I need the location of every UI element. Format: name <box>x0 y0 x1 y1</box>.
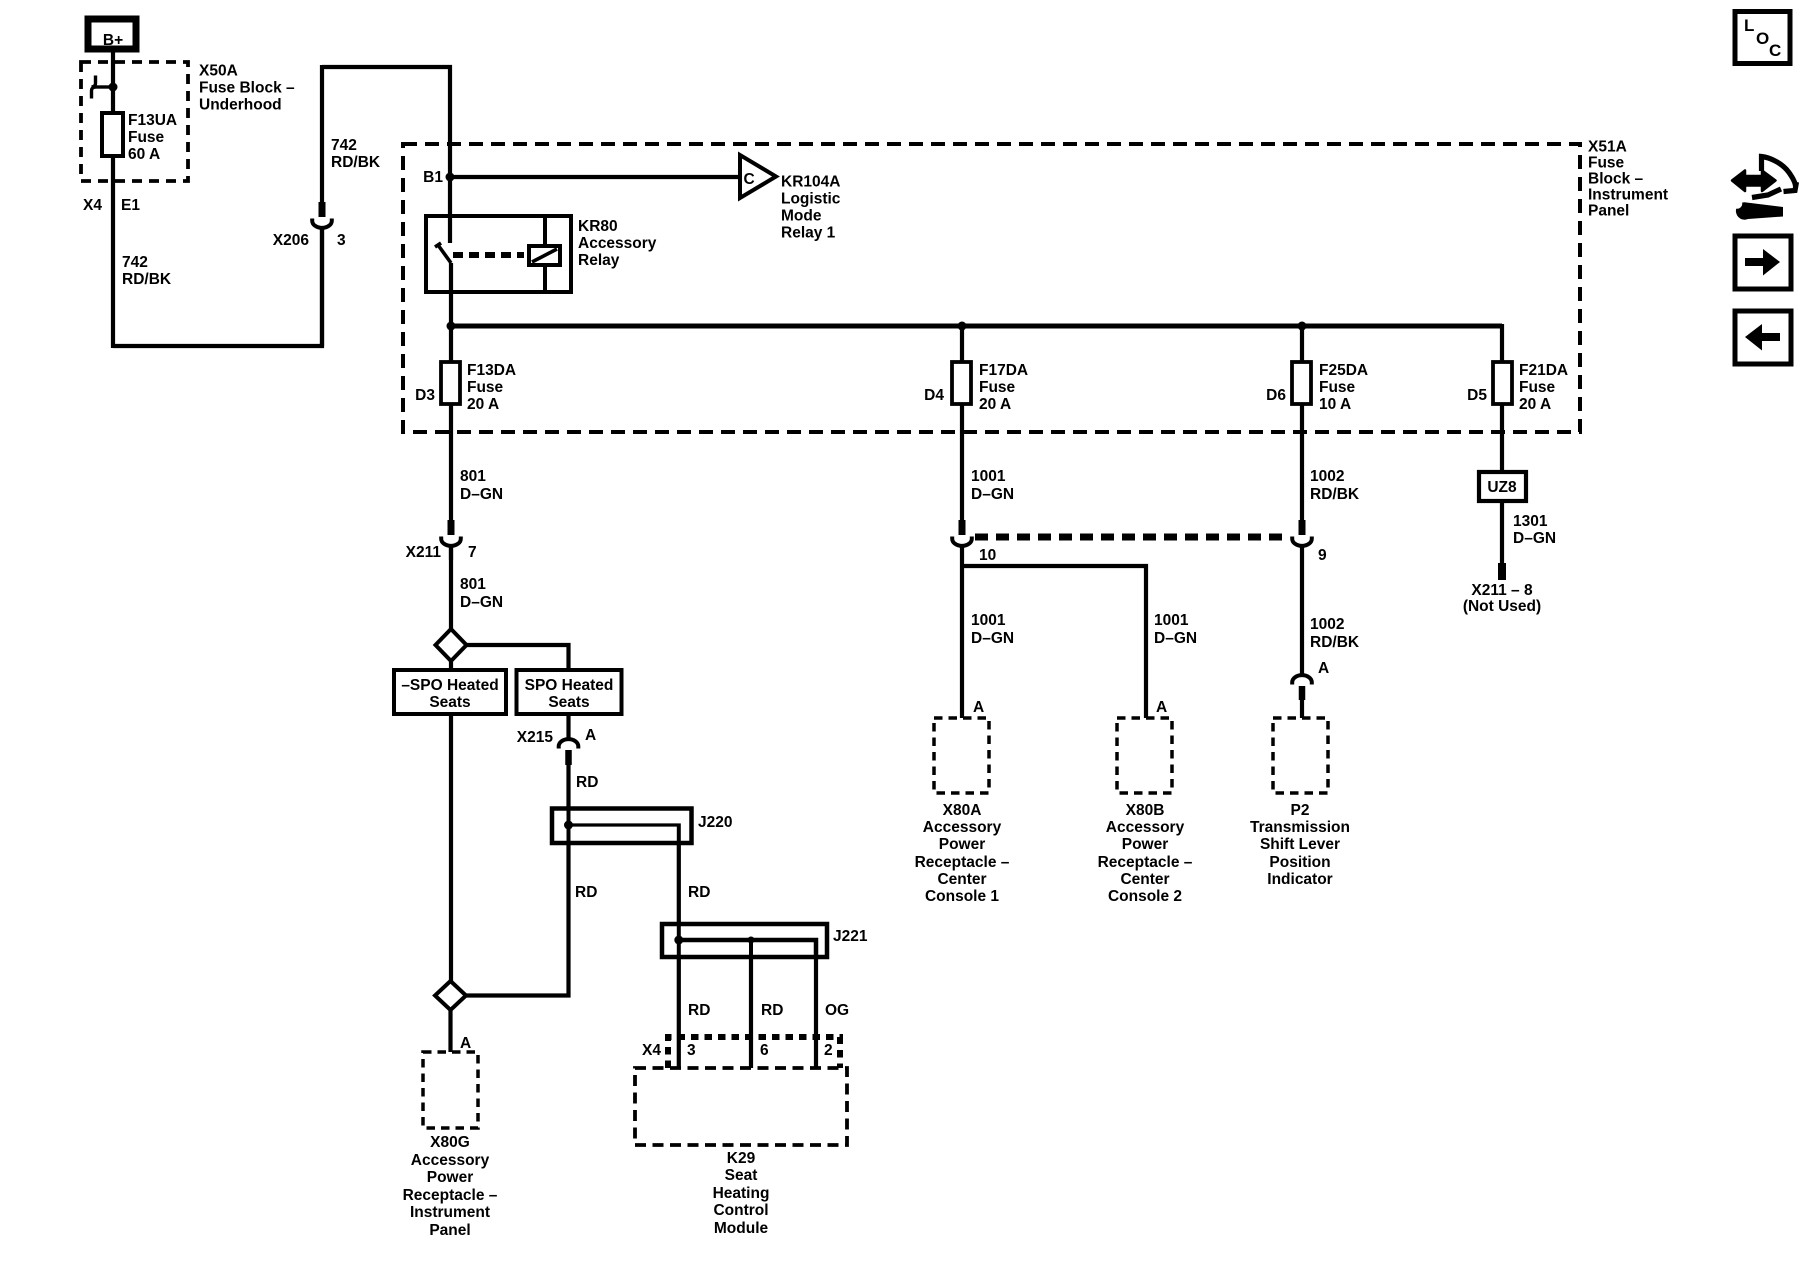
svg-text:1001: 1001 <box>971 468 1006 485</box>
svg-text:J221: J221 <box>833 928 868 945</box>
svg-text:K29: K29 <box>727 1150 756 1167</box>
svg-text:OG: OG <box>825 1002 849 1019</box>
svg-text:F13UA: F13UA <box>128 112 177 129</box>
svg-text:A: A <box>1156 699 1167 716</box>
svg-text:3: 3 <box>687 1042 696 1059</box>
svg-text:Underhood: Underhood <box>199 97 282 114</box>
wire label 1001 D-GN (D4 upper) <box>971 468 1014 503</box>
connector X4 / pin E1 labels <box>83 197 140 214</box>
option box -SPO Heated Seats <box>394 670 506 714</box>
svg-text:Shift Lever: Shift Lever <box>1260 836 1340 853</box>
svg-text:9: 9 <box>1318 547 1327 564</box>
wire J221 pin6 leg <box>749 957 753 1068</box>
svg-text:RD: RD <box>688 1002 710 1019</box>
wire label 801 D-GN (lower) <box>460 576 503 611</box>
splice pack J220 <box>552 809 732 844</box>
svg-text:D–GN: D–GN <box>1513 530 1556 547</box>
relay KR80 <box>426 216 571 292</box>
svg-text:X215: X215 <box>517 729 554 746</box>
svg-text:Transmission: Transmission <box>1250 819 1350 836</box>
wire label 1301 D-GN <box>1513 513 1556 547</box>
svg-text:KR80: KR80 <box>578 218 618 235</box>
wire D4 drop <box>960 326 964 520</box>
svg-text:1001: 1001 <box>971 612 1006 629</box>
wire pin10 to T split <box>960 544 964 718</box>
component K29 dashed box <box>635 1068 847 1145</box>
svg-text:RD: RD <box>761 1002 783 1019</box>
svg-text:RD: RD <box>688 884 710 901</box>
svg-text:A: A <box>460 1035 471 1052</box>
svg-text:1002: 1002 <box>1310 616 1344 633</box>
svg-text:X80B: X80B <box>1126 802 1165 819</box>
bus wire across fuse block <box>451 324 1502 329</box>
svg-text:SPO Heated: SPO Heated <box>525 677 614 694</box>
svg-text:7: 7 <box>468 544 477 561</box>
wire J220 left leg down <box>467 843 569 996</box>
nav icon back arrow box <box>1735 311 1791 364</box>
svg-text:B1: B1 <box>423 169 443 186</box>
fuse UZ8 box <box>1479 472 1526 501</box>
nav icon LOC box <box>1735 12 1790 64</box>
svg-text:RD/BK: RD/BK <box>1310 486 1360 503</box>
svg-text:F17DA: F17DA <box>979 362 1028 379</box>
fuse F13DA 20A D3 <box>415 362 516 413</box>
svg-text:6: 6 <box>760 1042 769 1059</box>
svg-text:B+: B+ <box>103 32 123 49</box>
fuse block X51A dashed box <box>403 144 1580 432</box>
svg-text:742: 742 <box>122 254 148 271</box>
svg-text:Fuse: Fuse <box>1519 379 1556 396</box>
svg-text:C: C <box>744 171 755 188</box>
component X80B dashed box <box>1117 718 1172 793</box>
X80A label <box>915 802 1010 905</box>
svg-text:D–GN: D–GN <box>1154 630 1197 647</box>
KR104A label <box>781 174 841 242</box>
P2 label <box>1250 802 1350 888</box>
svg-text:Console 2: Console 2 <box>1108 888 1182 905</box>
splice diamond to X80G <box>435 981 466 1010</box>
svg-text:X4: X4 <box>642 1042 661 1059</box>
wire bottom run to X206 <box>113 229 322 346</box>
svg-text:20 A: 20 A <box>467 396 499 413</box>
svg-text:2: 2 <box>824 1042 833 1059</box>
svg-text:D6: D6 <box>1266 387 1286 404</box>
svg-text:20 A: 20 A <box>1519 396 1551 413</box>
svg-text:1002: 1002 <box>1310 468 1344 485</box>
wire label 1002 RD/BK (upper) <box>1310 468 1360 503</box>
fuse F25DA 10A D6 <box>1266 362 1368 413</box>
in-line connector X211 pin 7 <box>406 520 477 561</box>
svg-text:Receptacle –: Receptacle – <box>403 1187 498 1204</box>
svg-text:Receptacle –: Receptacle – <box>915 854 1010 871</box>
svg-text:D3: D3 <box>415 387 435 404</box>
svg-text:Control: Control <box>713 1202 768 1219</box>
svg-text:Fuse: Fuse <box>467 379 504 396</box>
svg-text:Seats: Seats <box>548 694 589 711</box>
svg-text:Receptacle –: Receptacle – <box>1098 854 1193 871</box>
wire diamond to SPO box <box>467 645 569 670</box>
svg-text:Accessory: Accessory <box>411 1152 490 1169</box>
svg-text:60 A: 60 A <box>128 146 160 163</box>
X80B label <box>1098 802 1193 905</box>
svg-text:E1: E1 <box>121 197 140 214</box>
svg-text:20 A: 20 A <box>979 396 1011 413</box>
in-line connector pin 9 <box>1292 520 1327 564</box>
svg-text:D–GN: D–GN <box>971 630 1014 647</box>
svg-text:J220: J220 <box>698 814 732 831</box>
svg-text:(Not Used): (Not Used) <box>1463 598 1541 615</box>
wire B1 down into relay <box>448 177 452 243</box>
svg-text:Center: Center <box>1120 871 1169 888</box>
svg-text:F13DA: F13DA <box>467 362 516 379</box>
fuse F17DA 20A D4 <box>924 362 1028 413</box>
svg-text:KR104A: KR104A <box>781 174 840 191</box>
svg-text:Power: Power <box>939 836 986 853</box>
svg-text:O: O <box>1756 29 1769 48</box>
svg-text:Module: Module <box>714 1220 769 1237</box>
battery stud clip symbol <box>92 76 111 99</box>
wire J221 pin3 leg <box>677 957 681 1068</box>
svg-text:X50A: X50A <box>199 63 238 80</box>
wire label 1001 D-GN (X80B) <box>1154 612 1197 647</box>
svg-text:L: L <box>1744 16 1754 35</box>
wire diamond to -SPO box <box>449 661 453 670</box>
component X80A dashed box <box>934 718 989 793</box>
svg-text:Position: Position <box>1269 854 1330 871</box>
svg-text:F21DA: F21DA <box>1519 362 1568 379</box>
svg-text:D4: D4 <box>924 387 944 404</box>
wire B+ down to fuse block <box>111 52 115 87</box>
svg-text:A: A <box>1318 660 1329 677</box>
wire label 742 RD/BK (upper) <box>331 137 381 171</box>
svg-text:Center: Center <box>937 871 986 888</box>
svg-text:D5: D5 <box>1467 387 1487 404</box>
svg-text:RD: RD <box>576 774 598 791</box>
svg-text:Fuse: Fuse <box>128 129 165 146</box>
svg-text:X80A: X80A <box>943 802 982 819</box>
svg-text:X211: X211 <box>406 544 442 561</box>
option box SPO Heated Seats <box>517 670 622 714</box>
svg-text:10: 10 <box>979 547 996 564</box>
svg-text:Panel: Panel <box>1588 203 1629 220</box>
svg-text:801: 801 <box>460 576 486 593</box>
junction dot D3 branch <box>447 322 456 331</box>
relay trigger KR104A symbol C <box>740 155 776 198</box>
wire D3 drop <box>449 326 453 520</box>
svg-text:Fuse: Fuse <box>1588 155 1625 172</box>
wire D5 drop <box>1500 324 1504 472</box>
terminal X211-8 <box>1498 563 1506 580</box>
svg-text:Accessory: Accessory <box>923 819 1002 836</box>
svg-text:Fuse: Fuse <box>979 379 1016 396</box>
svg-text:Seats: Seats <box>429 694 470 711</box>
svg-text:C: C <box>1769 41 1781 60</box>
svg-text:Fuse: Fuse <box>1319 379 1356 396</box>
svg-text:Accessory: Accessory <box>1106 819 1185 836</box>
nav icon next arrow box <box>1735 236 1791 289</box>
wire top run to X51A B1 <box>322 67 450 177</box>
component X80G dashed box <box>423 1052 478 1128</box>
component P2 dashed box <box>1273 718 1328 793</box>
svg-text:RD/BK: RD/BK <box>331 154 381 171</box>
svg-text:Console 1: Console 1 <box>925 888 999 905</box>
svg-text:801: 801 <box>460 468 486 485</box>
wire diamond2 to X80G <box>448 1010 452 1052</box>
K29 label <box>713 1150 770 1237</box>
in-line connector P2 pin A <box>1292 660 1329 718</box>
svg-text:UZ8: UZ8 <box>1487 479 1517 496</box>
svg-text:D–GN: D–GN <box>971 486 1014 503</box>
wire through fuse F13UA <box>111 87 115 348</box>
svg-text:RD: RD <box>575 884 597 901</box>
wire -SPO box down <box>449 714 453 981</box>
wire label 1002 RD/BK (lower) <box>1310 616 1360 651</box>
wire D6 drop <box>1300 326 1304 520</box>
svg-text:Accessory: Accessory <box>578 235 657 252</box>
svg-text:RD/BK: RD/BK <box>122 271 172 288</box>
fuse block X51A label <box>1588 139 1668 220</box>
wire label 1001 D-GN (X80A) <box>971 612 1014 647</box>
svg-text:10 A: 10 A <box>1319 396 1351 413</box>
fuse F21DA 20A D5 <box>1467 362 1568 413</box>
in-line connector X215 pin A <box>517 714 596 809</box>
svg-text:X51A: X51A <box>1588 139 1627 156</box>
wire pin9 down <box>1300 544 1304 675</box>
wire J220 right leg down <box>677 843 681 924</box>
svg-text:RD/BK: RD/BK <box>1310 634 1360 651</box>
svg-text:1301: 1301 <box>1513 513 1548 530</box>
splice diamond SPO option <box>436 629 467 661</box>
svg-text:X80G: X80G <box>430 1134 470 1151</box>
wire relay to bus <box>449 263 453 326</box>
connector row X4 dotted box <box>668 1037 840 1068</box>
junction dot D4 branch <box>958 322 967 331</box>
svg-text:Panel: Panel <box>429 1222 470 1239</box>
svg-text:X4: X4 <box>83 197 102 214</box>
svg-text:D–GN: D–GN <box>460 594 503 611</box>
nav icon wiring tools <box>1732 157 1797 220</box>
svg-text:–SPO Heated: –SPO Heated <box>401 677 498 694</box>
svg-text:P2: P2 <box>1291 802 1310 819</box>
svg-text:A: A <box>585 727 596 744</box>
junction dot D6 branch <box>1298 322 1307 331</box>
power symbol B+ <box>88 19 136 49</box>
wire UZ8 to X211-8 terminal <box>1500 501 1504 564</box>
svg-text:Logistic: Logistic <box>781 191 841 208</box>
X211-8 not used label <box>1463 582 1541 615</box>
wire X211-7 to splice diamond <box>449 544 453 630</box>
node B1 <box>423 169 454 186</box>
svg-text:Power: Power <box>427 1169 474 1186</box>
svg-text:Instrument: Instrument <box>1588 187 1668 204</box>
wire J221 pin2 leg <box>814 957 818 1068</box>
svg-text:3: 3 <box>337 232 346 249</box>
wire label 801 D-GN (upper) <box>460 468 503 503</box>
svg-text:X211 – 8: X211 – 8 <box>1471 582 1533 599</box>
in-line connector pin 10 <box>952 520 996 564</box>
svg-text:Instrument: Instrument <box>410 1204 490 1221</box>
fuse block X50A label <box>199 63 295 114</box>
wire B1 to KR104A <box>450 175 738 179</box>
svg-text:Power: Power <box>1122 836 1169 853</box>
svg-text:A: A <box>973 699 984 716</box>
fuse block X50A dashed box <box>81 62 188 181</box>
junction dot at B+ feed <box>109 83 118 92</box>
dotted connector tie line <box>975 534 1289 541</box>
svg-text:Heating: Heating <box>713 1185 770 1202</box>
svg-text:Mode: Mode <box>781 208 822 225</box>
wire branch to X80B <box>962 566 1146 718</box>
svg-text:Relay: Relay <box>578 252 620 269</box>
svg-text:1001: 1001 <box>1154 612 1189 629</box>
X80G label <box>403 1134 498 1239</box>
svg-text:Relay 1: Relay 1 <box>781 225 836 242</box>
svg-text:Block –: Block – <box>1588 171 1644 188</box>
svg-text:Fuse Block –: Fuse Block – <box>199 80 295 97</box>
svg-text:F25DA: F25DA <box>1319 362 1368 379</box>
splice pack J221 <box>662 924 868 957</box>
relay KR80 label <box>578 218 657 269</box>
svg-text:X206: X206 <box>273 232 310 249</box>
svg-text:742: 742 <box>331 137 357 154</box>
svg-text:Indicator: Indicator <box>1267 871 1332 888</box>
wire label 742 RD/BK (lower left) <box>122 254 172 288</box>
svg-text:Seat: Seat <box>725 1167 758 1184</box>
svg-text:D–GN: D–GN <box>460 486 503 503</box>
in-line connector X206 pin 3 <box>273 65 346 346</box>
fuse F13UA 60A <box>102 112 177 163</box>
